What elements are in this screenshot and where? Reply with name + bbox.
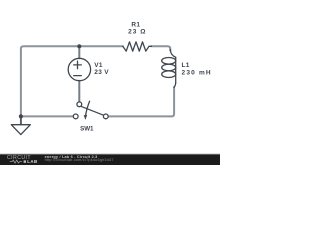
svg-text:SW1: SW1 [80,126,94,133]
svg-text:23 V: 23 V [94,69,109,76]
svg-text:R1: R1 [131,22,140,29]
svg-text:LAB: LAB [27,159,37,164]
svg-text:L1: L1 [182,62,190,69]
svg-text:23 Ω: 23 Ω [128,29,146,36]
svg-text:http://circuitlab.com/c/7pk4u6: http://circuitlab.com/c/7pk4u6gh3447 [45,158,114,162]
svg-text:230 mH: 230 mH [182,70,212,77]
svg-text:V1: V1 [94,62,103,69]
